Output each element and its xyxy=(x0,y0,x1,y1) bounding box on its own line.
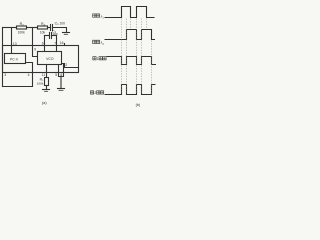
wire: R4 to C1 xyxy=(48,27,51,29)
wire: bottom feedback rail xyxy=(3,86,33,88)
waveform 1 (input) xyxy=(105,7,155,18)
ground for R1 xyxy=(43,89,50,91)
resistor R3 body xyxy=(17,26,27,29)
svg-text:3: 3 xyxy=(4,73,6,77)
waveform 2 (output) xyxy=(105,30,156,40)
wire: pin7 vertical xyxy=(56,36,58,52)
junction dot pin9/chip edge xyxy=(32,45,34,47)
svg-text:7: 7 xyxy=(54,41,56,45)
capacitor C2 wire pins 6-7 xyxy=(45,35,50,37)
wire: pin9 vertical from rail to VCO left xyxy=(33,28,38,57)
svg-text:2: 2 xyxy=(94,91,96,95)
wire: pins5,8 down to ground xyxy=(60,77,62,89)
svg-text:(a): (a) xyxy=(42,101,47,105)
wire: pin13 vertical from rail to PC box xyxy=(11,28,13,54)
svg-text:VCO: VCO xyxy=(46,57,54,61)
svg-text:10k: 10k xyxy=(40,31,46,35)
pin16 stub xyxy=(64,44,66,46)
wire: pin11 vertical to R1 xyxy=(46,65,48,78)
svg-text:5: 5 xyxy=(55,73,57,77)
wire: pin6 vertical xyxy=(44,36,46,52)
svg-text:2: 2 xyxy=(65,63,67,67)
svg-text:100k: 100k xyxy=(37,81,44,85)
op block PC II box xyxy=(5,54,26,64)
capacitor C2 plates xyxy=(49,33,51,39)
dashed alignment lines xyxy=(122,19,152,95)
waveform label 3: pin 1 output xyxy=(93,57,96,60)
wire: VCO output to pin2 exit xyxy=(62,64,79,68)
svg-text:(b): (b) xyxy=(136,103,141,107)
waveform 4 (pin 1 pulses) xyxy=(105,85,156,95)
svg-text:R4: R4 xyxy=(41,22,46,27)
wire: pins5,8 verticals join xyxy=(59,65,64,77)
resistor R1 body xyxy=(45,78,49,86)
resistor R4 body xyxy=(38,26,48,29)
pin numbers xyxy=(4,41,67,77)
svg-text:13: 13 xyxy=(13,42,17,46)
svg-text:1: 1 xyxy=(102,17,104,20)
wire: R3 to R4 xyxy=(27,27,38,29)
op block VCO box xyxy=(38,52,62,65)
svg-text:11: 11 xyxy=(42,73,46,77)
svg-text:4: 4 xyxy=(28,73,30,77)
wire: top rail from input corner to R3 xyxy=(3,27,17,29)
svg-text:R3: R3 xyxy=(20,22,25,27)
svg-text:180: 180 xyxy=(52,32,57,36)
waveform 3 (pin 13 PC out) xyxy=(107,57,157,65)
ground for C1 xyxy=(63,32,70,34)
svg-text:0: 0 xyxy=(102,43,104,46)
svg-text:100k: 100k xyxy=(18,31,26,35)
svg-text:1: 1 xyxy=(97,57,99,61)
svg-text:6: 6 xyxy=(42,41,44,45)
waveform label 1: input f1 xyxy=(93,14,96,17)
waveform label 4: pin 2 output xyxy=(90,91,93,94)
svg-text:8: 8 xyxy=(60,73,62,77)
svg-text:16: 16 xyxy=(60,41,64,45)
wire: C1 to ground corner xyxy=(53,28,67,33)
wire: input line left vertical xyxy=(2,28,4,87)
chip box CC4046 xyxy=(3,46,79,73)
ground for pins5,8 xyxy=(58,88,65,90)
wire: R1 to ground xyxy=(46,86,48,90)
capacitor C1 plates xyxy=(50,25,52,31)
svg-text:PC II: PC II xyxy=(10,57,18,61)
labels: component designators xyxy=(18,22,66,86)
svg-text:9: 9 xyxy=(34,47,36,51)
waveform label 2: output f0 xyxy=(93,40,96,43)
wire: PC right to pin3/4 vertical down to bottom rail xyxy=(26,63,33,87)
svg-text:C1 100: C1 100 xyxy=(55,22,66,27)
